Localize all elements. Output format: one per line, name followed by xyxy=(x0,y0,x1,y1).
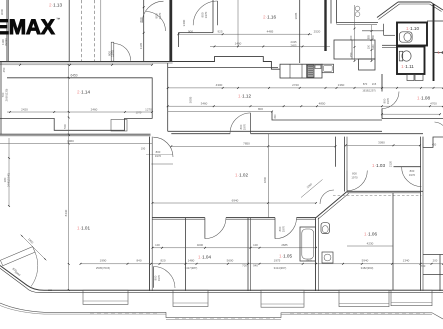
diagonal wall top right outer xyxy=(377,2,398,18)
svg-text:2·1.13: 2·1.13 xyxy=(49,3,62,8)
diagonal wall inner xyxy=(318,193,349,219)
diagonal wall top right inner xyxy=(379,4,400,20)
svg-text:4700: 4700 xyxy=(430,102,437,106)
svg-text:1·1.05: 1·1.05 xyxy=(279,254,292,259)
svg-text:1·1.08: 1·1.08 xyxy=(417,96,430,101)
door leaf at x112 xyxy=(111,42,114,61)
wall x185.5 xyxy=(185,218,187,291)
svg-text:4000: 4000 xyxy=(197,243,204,247)
svg-text:820: 820 xyxy=(160,259,165,263)
svg-text:1480: 1480 xyxy=(188,259,195,263)
dim line y114.2 room 1.08 xyxy=(382,113,440,115)
wall y254.5 right xyxy=(423,254,443,256)
svg-text:1270: 1270 xyxy=(145,107,152,111)
room 2.16 corner wall y32.6 xyxy=(178,32,213,34)
dim chain y106.2 corridor xyxy=(168,105,443,107)
room 1.07 partial walls xyxy=(427,20,443,22)
svg-text:7850: 7850 xyxy=(243,142,250,146)
thick shaft wall x170.8 xyxy=(169,0,172,62)
bottom wall outer y290.3 xyxy=(48,289,443,291)
wall x152.2 inner xyxy=(151,137,153,291)
svg-text:2440(1940): 2440(1940) xyxy=(6,173,10,187)
svg-text:3482(963): 3482(963) xyxy=(361,266,374,270)
wall y24.5 top right corridor xyxy=(337,24,378,26)
svg-text:1970: 1970 xyxy=(158,12,162,19)
svg-text:4485: 4485 xyxy=(267,29,274,33)
svg-text:2685: 2685 xyxy=(281,243,288,247)
plinth hatch dashes xyxy=(90,312,160,314)
svg-text:(6600): (6600) xyxy=(4,38,8,46)
door arc near diagonal xyxy=(320,190,334,204)
wall connector bath block to corridor xyxy=(382,44,397,46)
corridor 1.12 box top y67.4 xyxy=(168,66,278,68)
diagonal door leaf xyxy=(0,247,35,266)
store room divider xyxy=(351,40,353,59)
svg-text:4230: 4230 xyxy=(367,241,374,245)
wall y35.3 stub xyxy=(384,34,395,36)
svg-text:870: 870 xyxy=(363,82,368,86)
svg-text:2455: 2455 xyxy=(291,44,297,48)
bath 1.11 walls xyxy=(397,47,425,75)
svg-text:190: 190 xyxy=(141,147,146,151)
svg-text:REMAX: REMAX xyxy=(0,16,55,39)
wall y217.6 rooms 1.04 1.05 top xyxy=(152,217,205,219)
facade panel 5 xyxy=(391,290,432,306)
wall y274.5 right xyxy=(423,274,443,276)
svg-text:4850: 4850 xyxy=(319,102,326,106)
shaft wall x336.5 xyxy=(336,0,338,24)
left wall x1 mid band xyxy=(0,61,2,134)
facade panel 4 xyxy=(339,290,389,306)
wall x344.5 outer xyxy=(344,137,346,192)
kitchen counter outline xyxy=(280,64,322,78)
svg-text:1340: 1340 xyxy=(403,259,410,263)
svg-text:1970: 1970 xyxy=(157,274,161,281)
wall x423 inner xyxy=(422,147,424,291)
svg-text:3400: 3400 xyxy=(182,19,186,26)
diagonal wall outer xyxy=(316,192,347,218)
svg-text:3005: 3005 xyxy=(189,96,193,103)
washing machine xyxy=(322,252,333,263)
wall x347 inner xyxy=(346,137,348,171)
svg-text:215: 215 xyxy=(372,82,377,86)
small fixture rects below 1.11 xyxy=(407,75,414,81)
svg-text:2435: 2435 xyxy=(291,40,297,44)
wall x250.5 inner xyxy=(250,218,252,291)
top wall y2 right xyxy=(398,1,431,3)
facade panel 3 xyxy=(261,290,304,307)
svg-text:4300: 4300 xyxy=(216,83,223,87)
svg-text:1970: 1970 xyxy=(155,154,162,158)
svg-text:1·1.02: 1·1.02 xyxy=(235,173,248,178)
wall x143.7 with dim ticks xyxy=(143,0,145,61)
wall y77.8 top of 2.14 xyxy=(7,77,153,79)
svg-text:1800: 1800 xyxy=(263,176,267,183)
wall y22.5 top right corridor xyxy=(337,22,379,24)
svg-text:925: 925 xyxy=(217,29,222,33)
thick divider wall x433.5 xyxy=(433,4,435,81)
dim line y111.5 partial xyxy=(168,111,272,113)
dashed line y195.5 xyxy=(333,195,422,197)
dim chain y112 2.14 band xyxy=(7,111,153,113)
svg-text:1970: 1970 xyxy=(409,173,416,177)
dim line x371.5 vertical cluster xyxy=(371,25,373,62)
corridor 1.12 left wall x167.7 xyxy=(167,63,169,131)
svg-text:1970: 1970 xyxy=(204,11,208,18)
svg-text:960: 960 xyxy=(306,259,311,263)
dim chain y87.9 corridor xyxy=(168,87,443,89)
dim chain y64.8 xyxy=(0,64,153,66)
svg-text:8430: 8430 xyxy=(64,209,68,216)
svg-text:2660(130): 2660(130) xyxy=(4,89,8,102)
door 1.03 left leaf xyxy=(346,171,348,191)
dim line y246 room 1.06 xyxy=(347,245,393,247)
partition line x268.3 xyxy=(267,134,269,218)
store room sub box xyxy=(359,59,375,70)
svg-text:2·1.16: 2·1.16 xyxy=(263,15,276,20)
corridor bottom wall left outer xyxy=(0,133,151,135)
wall y118.6 room 1.08 bottom-top xyxy=(382,118,443,120)
svg-text:700: 700 xyxy=(242,264,247,268)
svg-text:3090: 3090 xyxy=(378,141,385,145)
shaft wall x331 xyxy=(330,0,332,24)
svg-text:5940: 5940 xyxy=(362,259,369,263)
svg-text:960: 960 xyxy=(372,34,375,39)
svg-text:100: 100 xyxy=(155,243,160,247)
bottom wall inner y292.6 xyxy=(40,292,443,294)
kitchen appliance dark cell xyxy=(307,65,314,77)
door 1.01 arc xyxy=(153,137,173,157)
main wall y61.3 xyxy=(0,61,215,63)
toilet 1.11 bowl xyxy=(402,51,411,61)
dim line x238 in 2.16 xyxy=(237,0,239,46)
toilet 1.10 xyxy=(400,32,413,42)
svg-text:2·1.14: 2·1.14 xyxy=(77,90,90,95)
wall x440 right xyxy=(439,255,441,292)
wall y219.2 inner xyxy=(152,218,205,220)
wall y192.8 below 1.03 inner xyxy=(347,192,421,194)
curved corner inner xyxy=(0,268,40,292)
wall left outer x7 room 2.13 xyxy=(6,0,8,61)
dim line x68.7 vertical 8430 xyxy=(68,65,70,290)
svg-text:1·1.03: 1·1.03 xyxy=(372,163,385,168)
svg-text:900: 900 xyxy=(188,29,193,33)
svg-text:1·1.06: 1·1.06 xyxy=(364,232,377,237)
dim line y203 room 1.02 xyxy=(153,202,317,204)
svg-text:3460: 3460 xyxy=(201,102,208,106)
room 2.16 corner wall x213 xyxy=(212,0,214,33)
dim chain y263.8 xyxy=(81,263,443,265)
curved corner outer xyxy=(0,266,52,291)
svg-text:2505(7015): 2505(7015) xyxy=(96,266,110,270)
wall left inner x8.7 xyxy=(8,0,10,61)
svg-text:™: ™ xyxy=(56,17,60,22)
bath 1.10 walls xyxy=(397,23,427,46)
wall x383.6 stub xyxy=(383,24,385,36)
plinth left curve xyxy=(0,303,44,312)
door 1.05 upper leaf xyxy=(274,218,276,239)
diagonal dim line xyxy=(301,180,323,198)
kitchen counter divisions xyxy=(289,64,291,78)
wall y117.5 with notch xyxy=(0,118,153,130)
svg-text:1·1.10: 1·1.10 xyxy=(406,26,419,31)
bathtub xyxy=(300,227,316,261)
dim line x354.5 vertical xyxy=(354,5,356,61)
svg-text:2120: 2120 xyxy=(389,160,393,167)
diagonal door arc xyxy=(31,252,38,286)
svg-text:1·1.11: 1·1.11 xyxy=(401,64,414,69)
diagonal dim line corner xyxy=(21,235,47,261)
dashed line x94.5 xyxy=(94,0,96,61)
svg-text:1990: 1990 xyxy=(100,259,107,263)
svg-text:1460: 1460 xyxy=(235,42,242,46)
door 1.01 dim line xyxy=(146,154,173,156)
door arc at x112 xyxy=(114,44,131,61)
svg-text:450: 450 xyxy=(2,67,6,72)
door 1.02 arc xyxy=(230,113,251,134)
svg-text:1·1.0: 1·1.0 xyxy=(437,50,443,55)
svg-text:150: 150 xyxy=(349,52,353,57)
svg-text:800: 800 xyxy=(258,107,263,111)
svg-text:1970: 1970 xyxy=(351,175,358,179)
door 1.04 lower leaf xyxy=(153,267,155,288)
svg-text:5600: 5600 xyxy=(227,259,234,263)
kitchen small cell xyxy=(315,65,321,69)
dim line y34 room 2.16 xyxy=(178,33,312,35)
door 1.04 lower arc xyxy=(154,267,176,289)
svg-text:1·1.12: 1·1.12 xyxy=(238,94,251,99)
svg-text:885: 885 xyxy=(367,34,370,39)
svg-text:600: 600 xyxy=(349,35,353,40)
door 1.03 left arc xyxy=(347,171,367,191)
dim line y145.3 room 1.03 xyxy=(346,144,420,146)
door arc 1.05 upper xyxy=(275,218,297,239)
svg-text:500: 500 xyxy=(63,124,67,129)
dim line y146.3 with 7850 xyxy=(171,145,335,147)
wall y63 inner xyxy=(0,62,173,64)
svg-text:3414(967): 3414(967) xyxy=(274,266,287,270)
dashed line x81.4 xyxy=(80,0,82,61)
facade panel 2 xyxy=(173,290,208,306)
facade panel 1 xyxy=(83,290,128,304)
svg-text:1975: 1975 xyxy=(274,259,281,263)
cabinet box in corridor xyxy=(111,120,127,132)
svg-text:1360: 1360 xyxy=(338,83,345,87)
svg-text:1140: 1140 xyxy=(372,44,375,50)
wall x420.5 outer xyxy=(420,137,422,291)
dim line y143.5 xyxy=(0,143,152,145)
thick wall x325.5 xyxy=(324,0,326,51)
door 1.01 open leaf xyxy=(151,163,173,165)
svg-text:450: 450 xyxy=(432,142,437,146)
svg-text:200: 200 xyxy=(433,259,438,263)
wall x178.4 below corner xyxy=(177,33,179,47)
level marker circles xyxy=(355,6,360,11)
wall x149.5 outer 1.01 right xyxy=(149,137,151,291)
svg-text:1970: 1970 xyxy=(111,50,115,57)
svg-text:1·1.04: 1·1.04 xyxy=(198,255,211,260)
corridor bottom wall left inner xyxy=(0,135,151,137)
svg-text:1970: 1970 xyxy=(243,123,247,130)
wall x393 room 1.06 left xyxy=(392,193,394,291)
door arc right of x143.7 xyxy=(146,12,166,32)
plinth lines xyxy=(44,311,166,313)
svg-text:150: 150 xyxy=(367,44,370,49)
svg-text:100: 100 xyxy=(253,243,258,247)
corridor bottom wall right xyxy=(171,133,230,135)
wall x152.2 room 2.14 right xyxy=(151,78,153,119)
svg-text:1960: 1960 xyxy=(67,139,74,143)
kitchen sink box xyxy=(322,64,334,73)
door 1.04 upper leaf xyxy=(204,218,206,239)
store room box xyxy=(334,40,375,59)
shelf line y30.8 xyxy=(362,30,384,32)
door 1.03 right arc xyxy=(402,167,422,187)
thin line x100.8 xyxy=(100,0,102,61)
svg-text:1070: 1070 xyxy=(136,111,142,115)
door leaf x217.5 xyxy=(217,1,219,25)
dim line x9 left xyxy=(8,138,10,206)
toilet 1.11 tank xyxy=(399,51,402,61)
svg-text:1970: 1970 xyxy=(282,225,286,232)
svg-text:6940: 6940 xyxy=(232,198,239,202)
wall right of 2.13 x69.2 xyxy=(68,0,70,61)
svg-text:1·1.01: 1·1.01 xyxy=(77,226,90,231)
wall x382 corridor to 1.08 xyxy=(381,74,383,92)
wall y166.7 right part xyxy=(394,166,422,168)
dim line y46.4 room 2.16 xyxy=(210,45,330,47)
svg-text:1970: 1970 xyxy=(386,97,390,104)
dim line y247.8 rooms 1.04 xyxy=(153,247,317,249)
wall y191.3 below 1.03 xyxy=(347,190,423,192)
svg-text:1618(1297): 1618(1297) xyxy=(362,89,375,93)
wall x248 outer xyxy=(247,218,249,291)
svg-text:700: 700 xyxy=(421,264,426,268)
wall x315.5 outer xyxy=(315,218,317,291)
svg-text:3005: 3005 xyxy=(294,12,298,19)
door arc top-mid hinge x163 xyxy=(142,1,163,23)
stepped wall below 2.16 xyxy=(215,57,281,70)
wall step x272 y120 xyxy=(272,112,382,121)
svg-text:2420: 2420 xyxy=(21,107,28,111)
svg-text:940: 940 xyxy=(253,264,258,268)
svg-text:3417(987): 3417(987) xyxy=(185,266,198,270)
wall x299.7 room 2.16 right xyxy=(299,0,301,63)
door 1.02 leaf xyxy=(250,113,252,134)
diagonal corner far right xyxy=(431,2,443,10)
door arc 1.04 upper xyxy=(205,218,226,239)
door arc 1.08 xyxy=(382,92,399,109)
svg-text:1145: 1145 xyxy=(139,42,143,49)
svg-text:3600: 3600 xyxy=(0,8,4,15)
svg-text:2720: 2720 xyxy=(292,83,299,87)
wall x335.5 xyxy=(335,137,337,167)
wall x318.3 inner xyxy=(317,218,319,291)
svg-text:6450: 6450 xyxy=(70,73,77,77)
toilet 1.06 xyxy=(321,223,330,234)
svg-text:2520: 2520 xyxy=(314,29,321,33)
door right edge arc xyxy=(435,122,443,126)
svg-text:300: 300 xyxy=(274,114,277,119)
svg-text:2460: 2460 xyxy=(91,107,98,111)
corridor 1.12 bottom y131.3 xyxy=(168,130,382,132)
svg-text:840: 840 xyxy=(136,259,141,263)
right jog walls near 1.03 xyxy=(423,137,443,148)
door arc hinge x217.5 top xyxy=(193,1,217,25)
